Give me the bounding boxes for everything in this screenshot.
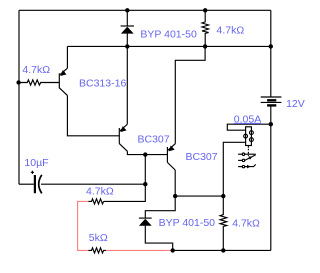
transistor Q3 BC307 second: [166, 147, 168, 162]
resistor R1 4.7k horizontal top-left: [19, 80, 60, 85]
svg-text:10µF: 10µF: [24, 157, 48, 169]
wire right rail lower: [270, 105, 272, 250]
wire Q1 collector to Q2 base: [67, 95, 119, 135]
node junction vertical tap x=145.3: [144, 155, 146, 185]
wire Q3 emitter jog: [175, 46, 205, 143]
relay RL1 coil: [246, 127, 252, 146]
node dot D1 bottom: [125, 44, 129, 48]
wire bottom rail: [173, 249, 271, 251]
capacitor C1 10uF: [34, 175, 36, 193]
wire D1 bottom to Q2 emitter: [126, 46, 128, 124]
node dot R2 bottom: [203, 44, 207, 48]
diode D1 BYP 401-50 top: [126, 10, 128, 26]
svg-text:4.7kΩ: 4.7kΩ: [86, 186, 114, 198]
svg-text:BC313-16: BC313-16: [79, 77, 126, 89]
node dot left rail R1: [16, 80, 20, 84]
wire 0.05A fuse wire: [227, 124, 270, 130]
svg-text:5kΩ: 5kΩ: [89, 232, 108, 244]
relay RL1 contacts: [238, 153, 242, 155]
wire coil lower lead: [223, 142, 245, 196]
wire red segment upper: [78, 201, 89, 250]
node dot base tap: [143, 152, 147, 156]
wire second rail y=46.4: [67, 45, 270, 47]
node dot coil R5: [221, 194, 225, 198]
resistor R2 4.7k vertical top: [202, 10, 209, 46]
transistor Q2 BC307 first: [118, 128, 120, 144]
transistor Q1 BC313-16: [58, 73, 60, 88]
wire red segment lower: [106, 249, 173, 251]
wire cap lead right: [41, 183, 145, 185]
wire top rail: [19, 9, 271, 11]
diode D2 BYP 401-50 bottom: [139, 217, 152, 219]
capacitor C1 polarity plus sign: [31, 171, 34, 173]
svg-text:BC307: BC307: [138, 134, 170, 146]
node dot R2 top: [203, 8, 207, 12]
wire cap lead left: [19, 183, 34, 185]
resistor R4 5k: [88, 248, 106, 253]
wire Q1 emitter: [66, 46, 68, 68]
svg-text:4.7kΩ: 4.7kΩ: [217, 24, 245, 36]
wire junction down to R3: [104, 184, 146, 201]
wire Q2 collector / Q3 base rail: [127, 151, 167, 154]
svg-text:BC307: BC307: [186, 151, 218, 163]
node dot right rail second: [269, 44, 273, 48]
wire left rail: [18, 10, 20, 184]
node dot bottom rail R5: [221, 248, 225, 252]
wire Q3 collector: [174, 170, 176, 196]
battery B1 12V: [261, 96, 282, 98]
svg-text:4.7kΩ: 4.7kΩ: [232, 218, 260, 230]
svg-text:12V: 12V: [286, 98, 305, 110]
resistor R5 4.7k vertical bottom-right: [220, 196, 227, 250]
wire rail y=196: [175, 195, 223, 197]
wire D2 branch: [145, 196, 175, 218]
node dot D1 top: [125, 8, 129, 12]
svg-text:BYP 401-50: BYP 401-50: [159, 217, 216, 229]
wire right rail upper: [270, 10, 272, 97]
node dot Q3 collector: [173, 194, 177, 198]
resistor R3 4.7k horizontal bottom: [88, 199, 103, 204]
node dot bottom rail red: [171, 248, 175, 252]
svg-text:4.7kΩ: 4.7kΩ: [22, 64, 50, 76]
node dot cap junction: [143, 182, 147, 186]
svg-text:BYP 401-50: BYP 401-50: [140, 29, 197, 41]
node dot battery bottom: [269, 122, 273, 126]
